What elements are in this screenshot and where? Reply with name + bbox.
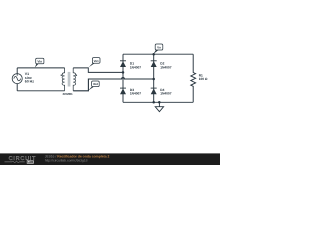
diode D1 <box>120 61 126 67</box>
junction node secondary-top / bridge left <box>122 71 125 74</box>
diode labels <box>130 62 172 96</box>
flag Vo <box>153 44 163 54</box>
ground <box>155 102 163 111</box>
transformer XFMR1 <box>62 68 76 91</box>
svg-text:60 Hz: 60 Hz <box>25 79 34 83</box>
svg-text:Vo: Vo <box>157 46 161 50</box>
diode D3 <box>120 88 126 94</box>
svg-text:LAB: LAB <box>27 160 33 164</box>
secondary winding <box>73 68 76 91</box>
wire secondary bottom to bridge <box>73 78 154 91</box>
top rail <box>123 53 193 55</box>
wire primary top <box>17 67 64 69</box>
flag Vin <box>35 58 44 67</box>
flag Vo1 <box>89 58 100 68</box>
voltage source V1 <box>12 74 22 84</box>
primary winding <box>62 68 65 91</box>
bridge right column <box>153 54 155 102</box>
bridge left column <box>122 54 124 102</box>
svg-text:Vo2: Vo2 <box>93 82 98 86</box>
wire primary left below V1 <box>16 84 18 91</box>
svg-text:1N4007: 1N4007 <box>160 65 171 69</box>
svg-text:XFMR1: XFMR1 <box>63 92 73 96</box>
footer logo LAB <box>27 160 34 163</box>
bottom rail <box>123 101 193 103</box>
svg-text:1N4007: 1N4007 <box>160 92 171 96</box>
footer logo squiggle <box>5 161 25 163</box>
junction node secondary-bottom / bridge right <box>152 78 155 81</box>
svg-text:http://circuitlab.com/c/9s3g18: http://circuitlab.com/c/9s3g18 <box>45 159 88 163</box>
phase dot primary <box>61 75 62 76</box>
svg-text:1N4007: 1N4007 <box>130 92 141 96</box>
resistor R1 branch <box>191 54 196 102</box>
label V1 value <box>25 72 34 83</box>
label R1 value <box>199 74 208 82</box>
phase dot secondary <box>76 75 77 76</box>
wire secondary top to bridge <box>73 68 123 73</box>
wire primary left above V1 <box>16 68 18 74</box>
svg-text:Vin: Vin <box>37 59 42 63</box>
junction node Vo top rail <box>152 53 155 56</box>
diode D4 <box>151 88 157 94</box>
junction node ground <box>158 101 161 104</box>
svg-text:1N4007: 1N4007 <box>130 65 141 69</box>
flag Vo2 <box>88 81 99 91</box>
wire primary bottom <box>17 90 64 92</box>
svg-text:Vo1: Vo1 <box>94 59 99 63</box>
junction node bottom rail right column <box>152 101 155 104</box>
core <box>68 72 71 87</box>
footer bar <box>0 153 220 165</box>
diode D2 <box>151 61 157 67</box>
svg-text:100 Ω: 100 Ω <box>199 77 208 81</box>
